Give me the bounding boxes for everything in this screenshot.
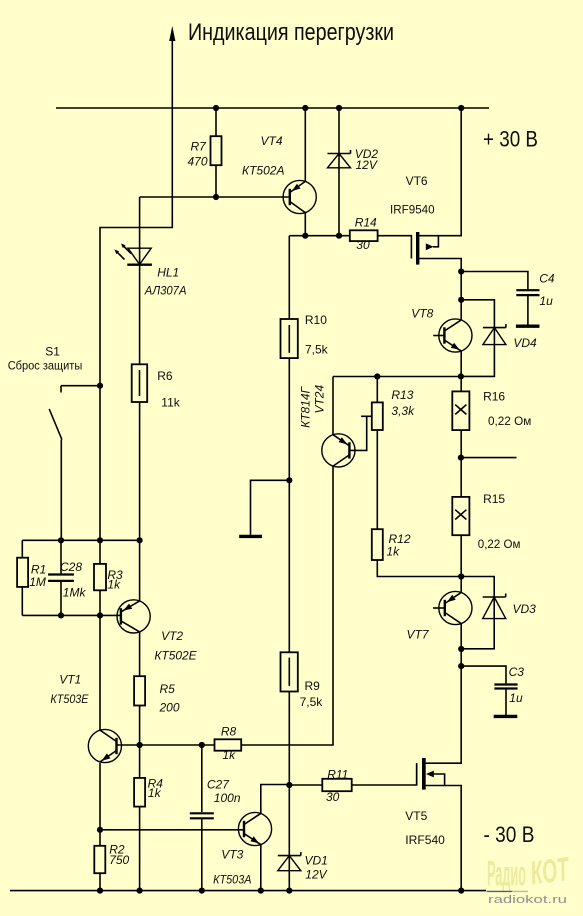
svg-text:IRF540: IRF540 — [405, 833, 445, 847]
svg-text:0,22 Ом: 0,22 Ом — [488, 414, 531, 428]
svg-text:1u: 1u — [539, 294, 553, 308]
svg-text:30: 30 — [326, 790, 340, 804]
svg-text:HL1: HL1 — [157, 266, 179, 280]
svg-text:КОТ: КОТ — [528, 850, 572, 892]
svg-text:VD4: VD4 — [513, 336, 537, 350]
svg-text:R8: R8 — [221, 724, 237, 738]
svg-text:VT7: VT7 — [407, 628, 430, 642]
svg-text:radiokot.ru: radiokot.ru — [488, 894, 567, 906]
svg-text:R6: R6 — [157, 369, 173, 383]
svg-text:R5: R5 — [160, 682, 176, 696]
svg-text:VT4: VT4 — [261, 134, 283, 148]
svg-text:R10: R10 — [305, 313, 327, 327]
svg-text:R7: R7 — [191, 139, 208, 153]
svg-text:R9: R9 — [305, 679, 321, 693]
svg-text:- 30 В: - 30 В — [484, 822, 535, 847]
svg-text:30: 30 — [356, 238, 370, 252]
svg-text:Индикация перегрузки: Индикация перегрузки — [188, 19, 394, 46]
svg-text:КТ502А: КТ502А — [242, 163, 285, 177]
svg-text:VT3: VT3 — [221, 848, 243, 862]
svg-text:R14: R14 — [355, 216, 377, 230]
svg-text:1k: 1k — [386, 544, 400, 558]
svg-text:VD3: VD3 — [513, 602, 537, 616]
svg-text:VT24: VT24 — [312, 385, 326, 414]
svg-text:Радио: Радио — [487, 855, 526, 894]
svg-text:C28: C28 — [60, 560, 82, 574]
svg-text:1k: 1k — [148, 786, 162, 800]
svg-text:VT6: VT6 — [406, 174, 428, 188]
svg-text:VT1: VT1 — [59, 673, 81, 687]
svg-text:VT2: VT2 — [161, 629, 183, 643]
svg-text:12V: 12V — [356, 158, 378, 172]
svg-text:C3: C3 — [509, 665, 525, 679]
svg-text:КТ502Е: КТ502Е — [154, 648, 197, 662]
svg-text:1k: 1k — [222, 748, 236, 762]
svg-text:3,3k: 3,3k — [391, 404, 415, 418]
svg-text:1Mk: 1Mk — [63, 585, 87, 599]
svg-text:12V: 12V — [305, 868, 327, 882]
svg-text:7,5k: 7,5k — [300, 695, 324, 709]
svg-text:C4: C4 — [539, 272, 555, 286]
svg-text:АЛ307А: АЛ307А — [144, 284, 187, 298]
svg-text:R15: R15 — [483, 492, 505, 506]
svg-text:1M: 1M — [29, 575, 46, 589]
svg-text:200: 200 — [159, 700, 180, 714]
svg-text:1u: 1u — [509, 691, 523, 705]
svg-text:0,22 Ом: 0,22 Ом — [478, 537, 521, 551]
svg-text:750: 750 — [109, 853, 129, 867]
svg-text:КТ503Е: КТ503Е — [50, 692, 89, 706]
svg-text:R11: R11 — [327, 768, 348, 782]
svg-text:11k: 11k — [161, 395, 180, 409]
svg-text:470: 470 — [188, 154, 208, 168]
svg-text:VT5: VT5 — [405, 809, 427, 823]
svg-text:Сброс защиты: Сброс защиты — [8, 359, 83, 373]
svg-text:S1: S1 — [45, 344, 60, 358]
svg-text:100n: 100n — [214, 791, 241, 805]
svg-text:+ 30 В: + 30 В — [483, 127, 538, 152]
svg-text:7,5k: 7,5k — [305, 343, 329, 357]
svg-text:1k: 1k — [107, 578, 121, 592]
svg-text:IRF9540: IRF9540 — [390, 203, 435, 217]
svg-text:C27: C27 — [207, 778, 230, 792]
svg-text:R16: R16 — [483, 390, 505, 404]
svg-text:VD1: VD1 — [305, 854, 328, 868]
svg-text:R13: R13 — [391, 388, 413, 402]
svg-text:КТ503А: КТ503А — [213, 873, 251, 887]
svg-text:VT8: VT8 — [411, 307, 433, 321]
svg-text:КТ814Г: КТ814Г — [299, 385, 313, 427]
